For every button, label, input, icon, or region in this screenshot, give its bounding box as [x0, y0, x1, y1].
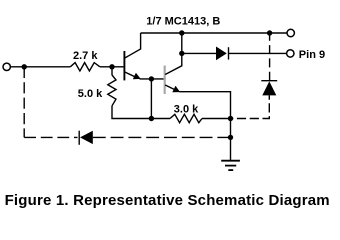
transistor Q1 emitter with arrow	[125, 72, 136, 77]
node: top rail / clamp diode dot	[267, 30, 272, 35]
diode D1 on Pin 9 rail (pointing right)	[216, 47, 227, 61]
ground	[221, 160, 240, 162]
wire (dashed): bottom left run to substrate diode	[24, 136, 77, 138]
top rail wire	[141, 32, 288, 34]
transistor Q1 collector	[125, 33, 141, 58]
resistor R3 3.0k (zigzag)	[170, 114, 202, 122]
diode D3 clamp (pointing up)	[262, 81, 276, 95]
svg-text:2.7 k: 2.7 k	[73, 50, 98, 62]
resistor R1 2.7k (zigzag)	[70, 63, 100, 71]
wire: base node down to resistor R2	[111, 67, 113, 75]
resistor R2 5.0k (vertical zigzag)	[108, 75, 116, 106]
wire: Pin 9 rail left segment	[182, 52, 216, 54]
wire (dashed): ground node right and up to clamp diode anode	[231, 95, 270, 118]
node: input junction dot	[22, 64, 27, 69]
wire: Q2 base node down to bottom rail	[150, 79, 152, 119]
wire: Pin 9 rail right segment	[229, 52, 287, 54]
wire: Q1 emitter to Q2 base	[140, 78, 164, 80]
wire: Q2 emitter right and down to ground	[179, 92, 230, 161]
node: Pin 9 rail junction dot	[179, 51, 184, 56]
Pin 9 terminal (open circle)	[287, 50, 294, 57]
svg-text:Figure 1. Representative Schem: Figure 1. Representative Schematic Diagr…	[5, 192, 330, 209]
node: bottom rail junction dot (under Q2 base)	[149, 116, 154, 121]
wire (dashed): substrate diode to ground rail	[93, 136, 231, 138]
wire: R3 to ground rail node	[202, 118, 231, 120]
diode D2 substrate (pointing left)	[78, 131, 80, 145]
input terminal (open circle)	[3, 63, 10, 70]
output terminal top right (open circle)	[287, 29, 294, 36]
wire: input terminal to resistor R1	[10, 66, 70, 68]
wire (dashed): input node down left side	[23, 67, 25, 138]
wire: R2 bottom down and right along bottom rail	[112, 106, 170, 119]
svg-text:1/7 MC1413, B: 1/7 MC1413, B	[146, 16, 220, 28]
svg-text:5.0 k: 5.0 k	[78, 88, 103, 100]
wire: R1 to base node	[100, 66, 124, 68]
transistor Q2 collector	[165, 33, 182, 75]
transistor Q2 emitter with arrow	[165, 85, 175, 90]
transistor Q1 base bar	[123, 51, 125, 80]
wire (dashed): clamp diode cathode up to top rail	[269, 33, 271, 81]
node: substrate rail junction dot	[228, 135, 233, 140]
node: Q1 base node dot	[109, 64, 114, 69]
node: top rail / Q2 collector dot	[179, 30, 184, 35]
svg-text:3.0 k: 3.0 k	[174, 103, 199, 115]
svg-text:Pin 9: Pin 9	[299, 49, 325, 61]
transistor Q2 base bar (light grey in scan)	[164, 66, 166, 95]
node: Q2 base node dot	[149, 76, 154, 81]
node: bottom rail / emitter junction dot	[228, 116, 233, 121]
